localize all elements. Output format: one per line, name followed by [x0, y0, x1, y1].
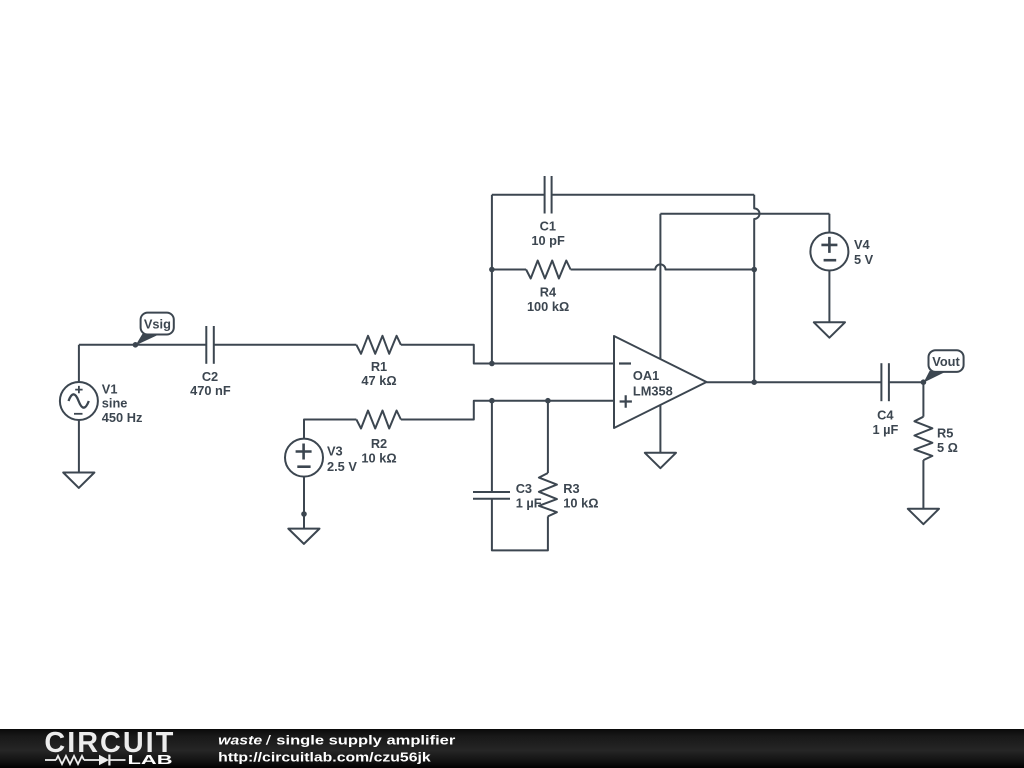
- svg-text:47 kΩ: 47 kΩ: [361, 373, 396, 388]
- svg-text:5 Ω: 5 Ω: [937, 440, 958, 455]
- svg-text:LM358: LM358: [633, 383, 673, 398]
- svg-text:Vsig: Vsig: [144, 317, 171, 332]
- svg-text:R2: R2: [371, 436, 387, 451]
- svg-text:1 µF: 1 µF: [872, 422, 898, 437]
- svg-text:100 kΩ: 100 kΩ: [527, 299, 569, 314]
- wire Vout to R5: [922, 382, 924, 417]
- capacitor C4: [872, 363, 898, 437]
- wire feedback right vertical with hop over V4 wire: [754, 195, 759, 382]
- wire C3 bottom to R3 bottom: [492, 499, 548, 551]
- svg-text:C2: C2: [202, 369, 218, 384]
- wire V1 top lead: [78, 345, 80, 382]
- voltage source V1: [60, 381, 142, 425]
- ground below V4: [814, 322, 845, 337]
- wire R4 right lead with hop over V+ wire: [571, 264, 755, 269]
- wire op-amp V+ pin: [659, 214, 661, 359]
- wire C4 to Vout node: [889, 381, 924, 383]
- op-amp OA1: [614, 336, 707, 428]
- node Vsig junction dot: [133, 342, 139, 348]
- svg-text:C3: C3: [516, 481, 532, 496]
- ground below op-amp: [645, 453, 676, 468]
- footer title: waste / single supply amplifier: [218, 732, 455, 764]
- CircuitLab logo LAB: [128, 752, 173, 767]
- svg-text:Vout: Vout: [932, 354, 960, 369]
- wire R1 to op-amp inverting input: [401, 345, 614, 364]
- wire R5 bottom lead: [922, 460, 924, 509]
- resistor R1: [356, 336, 401, 388]
- wire op-amp V- pin: [659, 405, 661, 453]
- svg-text:R5: R5: [937, 425, 953, 440]
- svg-text:470 nF: 470 nF: [190, 383, 231, 398]
- svg-text:450 Hz: 450 Hz: [102, 410, 143, 425]
- svg-text:V1: V1: [102, 381, 118, 396]
- node label Vout: [924, 350, 964, 382]
- wire V1 bottom lead: [78, 420, 80, 473]
- node junction dot minus input / feedback: [489, 361, 495, 367]
- svg-text:2.5 V: 2.5 V: [327, 459, 357, 474]
- wire C1 to right vertical: [552, 194, 755, 196]
- ground below V3: [288, 529, 319, 544]
- resistor R4: [526, 261, 571, 314]
- svg-text:C1: C1: [540, 219, 556, 234]
- wire R2 to op-amp non-inverting input: [401, 401, 614, 420]
- node junction dot plus input / C3: [489, 398, 495, 404]
- svg-text:V4: V4: [854, 237, 871, 252]
- wire V3 bottom lead: [303, 477, 305, 529]
- capacitor C2: [190, 326, 231, 398]
- ground below R5: [908, 509, 939, 524]
- wire op-amp output to C4: [707, 381, 882, 383]
- svg-text:R1: R1: [371, 359, 387, 374]
- wire V4 top lead: [828, 214, 830, 233]
- wire V4 bottom lead: [828, 271, 830, 323]
- wire feedback left vertical: [491, 195, 493, 364]
- footer bar: [0, 729, 1024, 768]
- resistor R2: [356, 411, 401, 466]
- svg-text:C4: C4: [877, 408, 894, 423]
- svg-text:sine: sine: [102, 396, 128, 411]
- wire input net Vsig (V1 to C2): [79, 344, 206, 346]
- wire V3 top lead to R2: [304, 420, 356, 439]
- wire top feedback to C1: [492, 194, 545, 196]
- svg-text:10 pF: 10 pF: [531, 233, 565, 248]
- wire R3 top lead: [547, 401, 549, 473]
- svg-text:10 kΩ: 10 kΩ: [563, 495, 598, 510]
- node junction dot plus input / R3: [545, 398, 551, 404]
- node Vout junction dot: [921, 379, 927, 385]
- voltage source V3: [285, 439, 357, 477]
- svg-text:OA1: OA1: [633, 368, 659, 383]
- node junction dot R4 left: [489, 267, 495, 273]
- voltage source V4: [810, 233, 873, 271]
- node label Vsig: [136, 313, 174, 346]
- capacitor C3: [473, 481, 542, 511]
- wire R4 left lead: [492, 269, 526, 271]
- node junction dot output / feedback: [751, 379, 757, 385]
- CircuitLab logo wordmark CIRCUIT: [44, 727, 173, 759]
- node junction dot below V3: [301, 511, 307, 517]
- wire C3 top lead: [491, 401, 493, 492]
- svg-text:V3: V3: [327, 444, 343, 459]
- svg-text:5 V: 5 V: [854, 252, 874, 267]
- wire V+ to V4: [660, 213, 829, 215]
- resistor R3: [539, 473, 599, 516]
- svg-text:10 kΩ: 10 kΩ: [361, 451, 396, 466]
- CircuitLab logo resistor-diode glyph: [45, 755, 126, 766]
- ground below V1: [63, 473, 94, 488]
- node junction dot R4 right / feedback: [751, 267, 757, 273]
- capacitor C1: [531, 176, 565, 248]
- svg-text:1 µF: 1 µF: [516, 496, 542, 511]
- svg-text:R4: R4: [540, 284, 557, 299]
- wire C2 to R1: [214, 344, 357, 346]
- resistor R5: [914, 417, 958, 460]
- svg-text:R3: R3: [563, 481, 579, 496]
